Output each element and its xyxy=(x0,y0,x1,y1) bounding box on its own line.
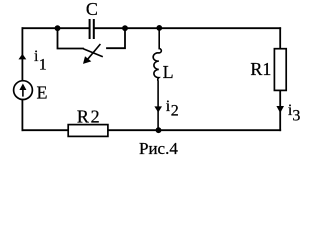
source E circle xyxy=(14,81,33,100)
current arrow i3 (down) on right branch xyxy=(276,106,284,113)
wire: right branch lower (resistor R1 to bottom rail) xyxy=(279,90,281,130)
capacitor C plates xyxy=(90,19,94,39)
wire: left branch lower (source E bottom to bottom-left corner) xyxy=(21,100,23,131)
svg-text:E: E xyxy=(37,82,48,102)
svg-text:C: C xyxy=(86,0,98,19)
current arrow i2 (down) on middle branch xyxy=(154,106,162,112)
wire: top rail right segment (capacitor right plate to top-right corner) xyxy=(95,27,280,29)
node D junction dot (bottom rail / inductor branch) xyxy=(156,127,162,133)
wire: right branch upper (top rail to resistor R1) xyxy=(279,28,281,49)
source E internal arrowhead xyxy=(19,84,26,91)
node C junction dot (top rail / inductor branch) xyxy=(156,25,162,31)
svg-text:R: R xyxy=(77,106,89,126)
inductor L lead and coil xyxy=(153,28,161,130)
switch S arrowhead xyxy=(83,56,91,64)
source E internal arrow stem xyxy=(22,88,24,97)
svg-text:1: 1 xyxy=(39,56,47,73)
switch S blade xyxy=(83,49,103,57)
switch S actuating arrow line xyxy=(88,44,100,59)
wire: switch branch left (node A down and right to switch contact) xyxy=(58,28,84,48)
current arrow i1 (up) on left branch xyxy=(19,54,27,60)
wire: bottom rail left segment (bottom-left corner to resistor R2) xyxy=(22,129,68,131)
wire: switch branch right (switch contact right and up to node B) xyxy=(107,28,125,48)
svg-text:Рис.4: Рис.4 xyxy=(139,139,178,158)
svg-text:L: L xyxy=(163,62,174,82)
resistor R1 body xyxy=(274,49,286,91)
svg-text:R1: R1 xyxy=(250,59,271,79)
wire: bottom rail right segment (resistor R2 to bottom-right corner) xyxy=(108,129,280,131)
wire: top rail left segment (top-left corner to capacitor left plate) xyxy=(22,27,88,29)
resistor R2 body xyxy=(68,125,108,137)
wire: left branch upper (source E top to top-left corner) xyxy=(21,28,23,80)
node A junction dot (top rail / switch branch left) xyxy=(55,25,61,31)
svg-text:2: 2 xyxy=(171,103,179,120)
node B junction dot (top rail / switch branch right) xyxy=(122,25,128,31)
svg-text:3: 3 xyxy=(292,108,300,125)
svg-text:2: 2 xyxy=(91,106,100,126)
